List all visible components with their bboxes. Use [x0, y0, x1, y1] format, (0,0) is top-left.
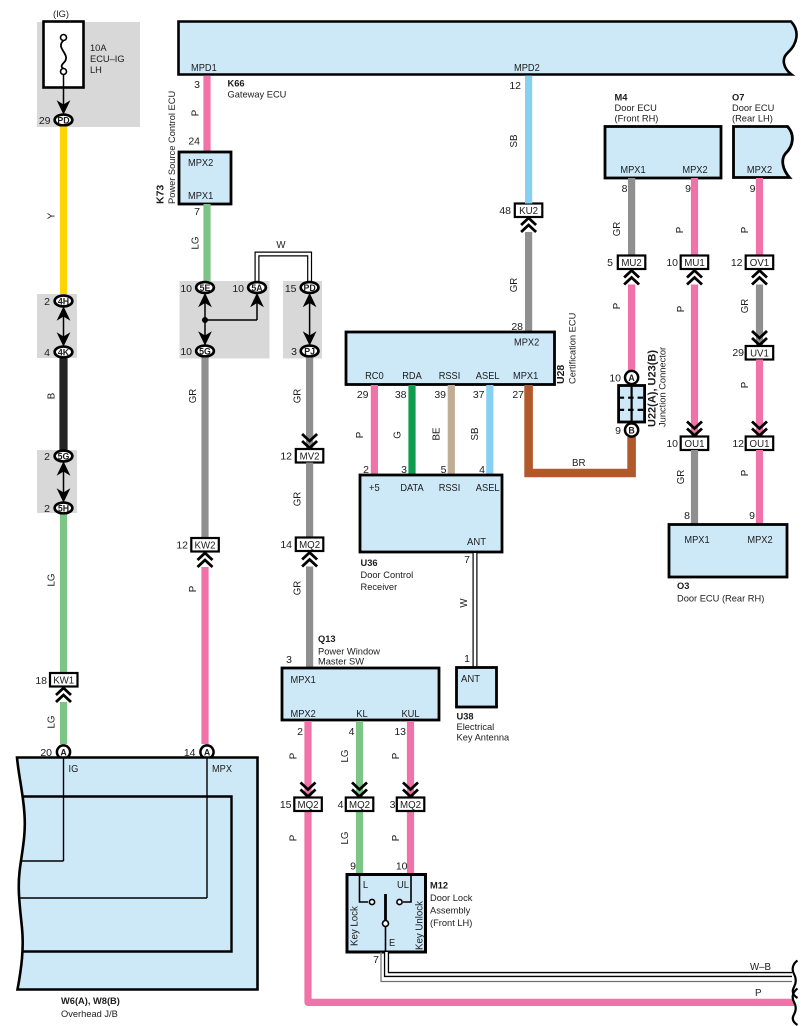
wire B (black) — [59, 359, 67, 451]
svg-text:KL: KL — [356, 708, 368, 720]
svg-text:Gateway ECU: Gateway ECU — [228, 90, 287, 100]
connector arrow below KU2 — [521, 218, 536, 232]
svg-text:10: 10 — [666, 257, 678, 269]
svg-text:PJ: PJ — [304, 346, 315, 356]
door lock assembly M12 — [347, 875, 426, 953]
svg-text:UV1: UV1 — [750, 348, 769, 359]
svg-text:12: 12 — [732, 438, 744, 450]
svg-text:ASEL: ASEL — [476, 370, 500, 382]
svg-text:ANT: ANT — [461, 673, 481, 685]
label U22(A), U23(B) Junction Connector (rotated) — [647, 347, 668, 427]
junction block internal wiring — [10, 757, 232, 952]
electrical key antenna U38 — [457, 668, 497, 708]
svg-text:Y: Y — [47, 212, 58, 219]
svg-text:7: 7 — [194, 206, 200, 218]
svg-text:MQ2: MQ2 — [299, 540, 320, 551]
svg-text:29: 29 — [732, 347, 744, 359]
svg-text:MV2: MV2 — [300, 451, 320, 462]
svg-text:RSSI: RSSI — [439, 482, 461, 494]
svg-text:BE: BE — [432, 427, 443, 440]
connector arrow below MQ2 — [302, 553, 317, 567]
svg-text:4: 4 — [349, 726, 355, 738]
connector MQ2 pin 3 — [390, 798, 425, 812]
svg-text:SB: SB — [470, 428, 481, 441]
gateway ECU K66 bus box — [179, 22, 797, 75]
svg-text:MPX1: MPX1 — [620, 164, 645, 176]
wire G (green) U28 RDA to U36 — [408, 385, 415, 475]
svg-text:10: 10 — [666, 438, 678, 450]
connector pair arrows 5G-5H — [58, 463, 69, 502]
wire P (pink) MU2 to junction connector A — [628, 285, 635, 372]
svg-text:P: P — [675, 227, 686, 233]
svg-text:29: 29 — [357, 389, 369, 401]
svg-text:RSSI: RSSI — [439, 370, 461, 382]
svg-text:7: 7 — [464, 554, 470, 566]
svg-text:5G: 5G — [58, 451, 70, 461]
svg-text:UL: UL — [397, 879, 409, 891]
svg-text:9: 9 — [749, 510, 755, 522]
wire P (pink) OU1 to O3 MPX2 — [756, 450, 763, 525]
wire fuse to connector PD — [58, 75, 69, 114]
svg-text:4K: 4K — [58, 347, 70, 357]
door ECU O7 (wavy right edge) — [734, 127, 793, 178]
svg-text:12: 12 — [509, 80, 521, 92]
svg-text:LH: LH — [90, 65, 102, 75]
svg-text:Key Unlock: Key Unlock — [415, 901, 426, 950]
svg-text:K66: K66 — [228, 79, 245, 89]
svg-text:O7: O7 — [732, 93, 744, 103]
connector 5H pin 2 — [44, 503, 72, 515]
svg-text:P: P — [740, 382, 751, 388]
connector A pin 14 — [184, 745, 214, 759]
svg-text:Assembly: Assembly — [430, 906, 471, 916]
svg-text:A: A — [628, 373, 635, 383]
svg-text:37: 37 — [473, 389, 485, 401]
svg-text:MPX1: MPX1 — [684, 534, 709, 546]
connector KU2 pin 48 — [499, 204, 542, 218]
svg-text:12: 12 — [731, 257, 743, 269]
svg-text:P: P — [391, 835, 402, 841]
wire P (pink) MU1 to OU1 — [691, 285, 698, 437]
svg-text:W: W — [276, 240, 286, 251]
svg-text:3: 3 — [286, 654, 292, 666]
connector PJ pin 3 — [291, 346, 318, 358]
connector arrow above OU1 (10) — [687, 422, 702, 436]
overhead junction block W6(A) W8(B) — [17, 758, 258, 990]
wire GR (gray) MV2 to MQ2 — [306, 463, 313, 538]
svg-text:9: 9 — [350, 861, 356, 873]
svg-text:Power Source Control ECU: Power Source Control ECU — [167, 91, 177, 204]
svg-text:P: P — [391, 753, 402, 759]
svg-text:W: W — [459, 598, 470, 608]
continuation mark W-B — [793, 961, 798, 999]
svg-text:10: 10 — [396, 861, 408, 873]
M12 internal key lock switch — [360, 876, 412, 952]
label M4 Door ECU (Front RH) — [615, 93, 659, 124]
fuse value label 10A ECU-IG LH — [90, 43, 125, 75]
svg-text:P: P — [355, 432, 366, 438]
connector OU1 pin 10 — [666, 437, 708, 451]
svg-text:GR: GR — [676, 470, 687, 485]
svg-text:O3: O3 — [677, 581, 689, 591]
svg-text:Door ECU: Door ECU — [615, 103, 657, 113]
svg-text:MPX1: MPX1 — [291, 674, 316, 686]
svg-text:P: P — [191, 110, 202, 116]
internal wiring 5E/5A junction to 5G — [199, 294, 262, 345]
connector MQ2 pin 14 — [280, 538, 323, 552]
svg-text:12: 12 — [176, 540, 188, 552]
svg-text:A: A — [60, 747, 67, 757]
wire BR (brown) U28 MPX1 to junction connector B — [529, 385, 632, 473]
svg-text:MPD2: MPD2 — [514, 62, 540, 74]
svg-text:KW1: KW1 — [53, 675, 74, 686]
svg-text:K73: K73 — [155, 185, 167, 204]
svg-text:P: P — [612, 303, 623, 309]
connector 4H pin 2 — [44, 296, 72, 308]
svg-text:2: 2 — [44, 451, 50, 463]
svg-text:Receiver: Receiver — [361, 582, 398, 592]
wire P (pink) UV1 to OU1 — [756, 360, 763, 437]
svg-text:5: 5 — [607, 257, 613, 269]
svg-text:E: E — [389, 937, 395, 949]
svg-text:27: 27 — [512, 389, 524, 401]
svg-text:RDA: RDA — [402, 370, 422, 382]
wire GR (gray) M4 MPX1 to MU2 — [628, 178, 635, 256]
svg-text:1: 1 — [464, 653, 470, 665]
connector arrow below KW1 — [56, 688, 71, 702]
connector arrow above MQ2 (4) — [352, 783, 367, 797]
label O3 Door ECU (Rear RH) — [677, 581, 764, 604]
svg-text:KW2: KW2 — [195, 540, 216, 551]
svg-text:(Rear LH): (Rear LH) — [732, 114, 773, 124]
junction block shading (IG fuse area) — [37, 22, 140, 127]
connector arrow above MV2 — [302, 434, 317, 448]
svg-text:ANT: ANT — [467, 536, 487, 548]
svg-text:U38: U38 — [457, 712, 474, 722]
svg-text:5A: 5A — [251, 283, 263, 293]
connector shading PD/PJ — [283, 281, 322, 359]
wire LG (light green) Q13 KL to M12 — [356, 721, 363, 875]
wire BE (beige) U28 RSSI to U36 — [448, 385, 455, 475]
wire Y (yellow) — [60, 127, 67, 296]
connector arrow above MQ2 (15) — [301, 783, 316, 797]
svg-text:8: 8 — [622, 183, 628, 195]
svg-text:SB: SB — [509, 135, 520, 148]
svg-text:GR: GR — [612, 222, 623, 237]
svg-text:GR: GR — [188, 389, 199, 404]
svg-text:Key Lock: Key Lock — [350, 906, 361, 946]
wire P (pink) Q13 MPX2 down to bottom and right — [308, 721, 794, 1002]
svg-text:10: 10 — [609, 373, 621, 385]
connector KW1 pin 18 — [35, 673, 77, 687]
svg-text:KU2: KU2 — [519, 206, 538, 217]
wire P (pink) K66 to K73 — [203, 76, 210, 153]
svg-text:LG: LG — [191, 237, 202, 250]
svg-text:5E: 5E — [200, 283, 211, 293]
wire P (pink) Q13 KUL to M12 — [407, 721, 414, 875]
svg-text:P: P — [289, 835, 300, 841]
wire P (pink) U28 RC0 to U36 — [371, 385, 378, 475]
connector pair arrows 4H-4K — [58, 308, 69, 346]
svg-text:PD: PD — [303, 283, 315, 293]
svg-text:DATA: DATA — [400, 482, 423, 494]
svg-text:3: 3 — [390, 799, 396, 811]
svg-text:10A: 10A — [90, 43, 107, 53]
svg-text:U28: U28 — [555, 365, 567, 384]
svg-text:8: 8 — [684, 510, 690, 522]
svg-text:Overhead J/B: Overhead J/B — [61, 1009, 118, 1019]
power source control ECU K73 — [179, 152, 231, 204]
label Q13 Power Window Master SW — [318, 634, 380, 667]
svg-text:P: P — [740, 227, 751, 233]
svg-text:LG: LG — [47, 716, 58, 729]
door ECU M4 — [605, 127, 721, 179]
svg-text:48: 48 — [499, 205, 511, 217]
svg-text:MU2: MU2 — [621, 258, 641, 269]
svg-text:4: 4 — [338, 799, 344, 811]
svg-text:7: 7 — [373, 954, 379, 966]
svg-text:15: 15 — [285, 283, 297, 295]
svg-text:RC0: RC0 — [365, 370, 384, 382]
svg-text:4H: 4H — [58, 296, 69, 306]
svg-text:39: 39 — [434, 389, 446, 401]
internal wiring PD to PJ — [304, 294, 315, 345]
svg-text:MPX2: MPX2 — [291, 708, 316, 720]
wire GR (gray) PJ to MV2 — [306, 358, 313, 449]
svg-text:MPX2: MPX2 — [188, 157, 213, 169]
connector PD pin 29 — [39, 115, 73, 127]
svg-text:29: 29 — [39, 115, 51, 127]
label O7 Door ECU (Rear LH) — [732, 93, 774, 124]
connector A pin 20 — [40, 745, 70, 759]
connector shading 5E/5A/5G — [180, 281, 270, 359]
svg-text:P: P — [740, 470, 751, 476]
svg-text:Q13: Q13 — [318, 634, 336, 644]
svg-text:IG: IG — [69, 763, 79, 775]
connector 5A pin 10 — [232, 282, 266, 295]
svg-text:5H: 5H — [58, 503, 69, 513]
svg-text:MU1: MU1 — [684, 258, 704, 269]
svg-text:GR: GR — [293, 581, 304, 596]
svg-text:ECU–IG: ECU–IG — [90, 54, 125, 64]
wire W (white) U36 ANT to U38 — [459, 553, 475, 667]
svg-text:MPX: MPX — [212, 763, 232, 775]
svg-text:G: G — [393, 431, 404, 439]
svg-text:P: P — [676, 306, 687, 312]
connector shading 4H/4K — [37, 294, 77, 358]
svg-text:MPX2: MPX2 — [747, 534, 772, 546]
connector 5G pin 10 — [180, 346, 214, 358]
svg-text:MPX2: MPX2 — [514, 337, 539, 349]
connector MQ2 pin 15 — [280, 798, 322, 812]
svg-text:P: P — [755, 988, 761, 999]
svg-text:GR: GR — [293, 492, 304, 507]
svg-text:MPX1: MPX1 — [513, 370, 538, 382]
connector arrow above MQ2 (3) — [403, 783, 418, 797]
connector KW2 pin 12 — [176, 538, 218, 552]
svg-text:W–B: W–B — [750, 962, 771, 973]
connector arrow above OU1 (12) — [752, 422, 767, 436]
svg-text:12: 12 — [280, 451, 292, 463]
connector MU1 pin 10 — [666, 256, 708, 270]
svg-text:24: 24 — [188, 136, 200, 148]
connector 5G pin 2 — [44, 451, 72, 463]
svg-text:Door Lock: Door Lock — [430, 893, 473, 903]
connector MV2 pin 12 — [280, 449, 323, 463]
svg-text:MQ2: MQ2 — [349, 800, 370, 811]
svg-text:14: 14 — [280, 539, 292, 551]
wire SB (light blue) bus MPD2 to KU2 — [525, 76, 532, 204]
label M12 Door Lock Assembly (Front LH) — [430, 881, 473, 929]
svg-text:3: 3 — [291, 346, 297, 358]
svg-text:P: P — [289, 753, 300, 759]
svg-text:M12: M12 — [430, 881, 448, 891]
svg-text:9: 9 — [750, 183, 756, 195]
label U28 Certification ECU (rotated) — [555, 313, 578, 384]
svg-text:10: 10 — [232, 283, 244, 295]
svg-text:A: A — [204, 747, 211, 757]
connector UV1 pin 29 — [732, 346, 773, 360]
svg-text:MPX2: MPX2 — [747, 164, 772, 176]
connector PD pin 15 — [285, 282, 319, 295]
svg-text:GR: GR — [740, 299, 751, 314]
svg-text:LG: LG — [340, 832, 351, 845]
power window master switch Q13 — [282, 668, 439, 720]
connector OU1 pin 12 — [732, 437, 773, 451]
svg-text:3: 3 — [194, 79, 200, 91]
wire P (pink) M4 MPX2 to MU1 — [691, 178, 698, 256]
connector OV1 pin 12 — [731, 256, 773, 270]
svg-text:LG: LG — [340, 750, 351, 763]
label W6(A), W8(B) Overhead J/B — [61, 996, 120, 1019]
connector arrow below MU2 — [624, 271, 639, 285]
svg-text:(Front LH): (Front LH) — [430, 918, 472, 928]
connector arrow below OV1 — [752, 271, 767, 285]
label U38 Electrical Key Antenna — [457, 712, 511, 743]
svg-text:Electrical: Electrical — [457, 722, 495, 732]
svg-text:(Front RH): (Front RH) — [615, 114, 659, 124]
svg-text:+5: +5 — [369, 482, 380, 494]
continuation mark P — [793, 989, 798, 1026]
svg-text:PD: PD — [57, 115, 69, 125]
wire LG (light green) KW1 to A — [60, 702, 67, 744]
wire P (pink) O7 MPX2 to OV1 — [756, 178, 763, 256]
wire GR (gray) KU2 to U28 MPX2 — [525, 232, 532, 332]
svg-text:Door Control: Door Control — [361, 570, 414, 580]
wire W (white) 5A to PD — [257, 240, 310, 282]
svg-text:W6(A), W8(B): W6(A), W8(B) — [61, 996, 120, 1006]
svg-text:2: 2 — [44, 296, 50, 308]
svg-text:Junction Connector: Junction Connector — [658, 347, 668, 427]
connector arrow below KW2 — [198, 553, 213, 567]
svg-text:10: 10 — [180, 346, 192, 358]
svg-text:U36: U36 — [361, 558, 378, 568]
junction connector U22(A) U23(B) — [619, 371, 645, 437]
svg-text:15: 15 — [280, 799, 292, 811]
connector MQ2 pin 4 — [338, 798, 374, 812]
svg-text:18: 18 — [35, 675, 47, 687]
svg-text:38: 38 — [395, 389, 407, 401]
label K73 Power Source Control ECU (rotated) — [155, 91, 178, 204]
label K66 Gateway ECU — [228, 79, 287, 100]
svg-text:Power Window: Power Window — [318, 647, 380, 657]
svg-text:Certification ECU: Certification ECU — [568, 313, 578, 384]
connector MU2 pin 5 — [607, 256, 645, 270]
svg-text:(IG): (IG) — [53, 9, 69, 19]
wire GR (gray) MQ2 to Q13 — [306, 567, 313, 669]
svg-text:Door ECU: Door ECU — [732, 103, 774, 113]
label U36 Door Control Receiver — [361, 558, 414, 592]
wire GR (gray) OV1 to UV1 — [756, 285, 763, 347]
certification ECU U28 — [346, 332, 555, 385]
wire GR (gray) OU1 to O3 MPX1 — [691, 450, 698, 525]
svg-text:MPX2: MPX2 — [682, 164, 707, 176]
svg-text:Key Antenna: Key Antenna — [457, 733, 511, 743]
wire GR (gray) 5G to KW2 — [201, 358, 208, 539]
svg-text:4: 4 — [44, 347, 50, 359]
svg-text:9: 9 — [685, 183, 691, 195]
svg-text:M4: M4 — [615, 93, 629, 103]
svg-text:2: 2 — [44, 503, 50, 515]
connector arrow above UV1 — [752, 331, 767, 345]
connector 4K pin 4 — [44, 347, 72, 359]
fuse F1 10A ECU-IG LH — [44, 22, 84, 88]
wire P (pink) KW2 to A — [201, 567, 208, 744]
svg-text:B: B — [47, 393, 58, 399]
svg-text:MQ2: MQ2 — [400, 800, 421, 811]
svg-text:Master SW: Master SW — [318, 657, 364, 667]
wire LG (light green) K73 to 5E — [203, 204, 210, 282]
svg-text:P: P — [188, 586, 199, 592]
svg-text:OU1: OU1 — [750, 439, 770, 450]
svg-text:5G: 5G — [199, 346, 211, 356]
svg-text:Door ECU (Rear RH): Door ECU (Rear RH) — [677, 594, 764, 604]
connector arrow below MU1 — [687, 271, 702, 285]
svg-text:MPX1: MPX1 — [188, 190, 213, 202]
svg-text:10: 10 — [180, 283, 192, 295]
svg-text:2: 2 — [297, 726, 303, 738]
svg-text:BR: BR — [572, 458, 585, 469]
svg-text:GR: GR — [509, 278, 520, 293]
svg-text:KUL: KUL — [401, 708, 419, 720]
wire W-B (white-black) from M12 E to right edge — [381, 952, 792, 982]
wire LG (light green) 5H to KW1 — [60, 515, 67, 674]
svg-text:13: 13 — [394, 726, 406, 738]
svg-text:B: B — [628, 425, 634, 435]
wire SB (light blue) U28 ASEL to U36 — [486, 385, 493, 475]
svg-text:LG: LG — [47, 574, 58, 587]
svg-text:MQ2: MQ2 — [298, 800, 319, 811]
svg-text:MPD1: MPD1 — [191, 62, 217, 74]
svg-text:ASEL: ASEL — [476, 482, 500, 494]
svg-text:OU1: OU1 — [685, 439, 705, 450]
svg-text:OV1: OV1 — [750, 258, 769, 269]
svg-text:GR: GR — [293, 389, 304, 404]
door ECU O3 — [669, 525, 787, 578]
connector shading 5G/5H — [37, 450, 77, 513]
door control receiver U36 — [360, 475, 502, 552]
svg-text:9: 9 — [615, 425, 621, 437]
svg-text:L: L — [363, 879, 368, 891]
connector 5E pin 10 — [180, 282, 214, 295]
